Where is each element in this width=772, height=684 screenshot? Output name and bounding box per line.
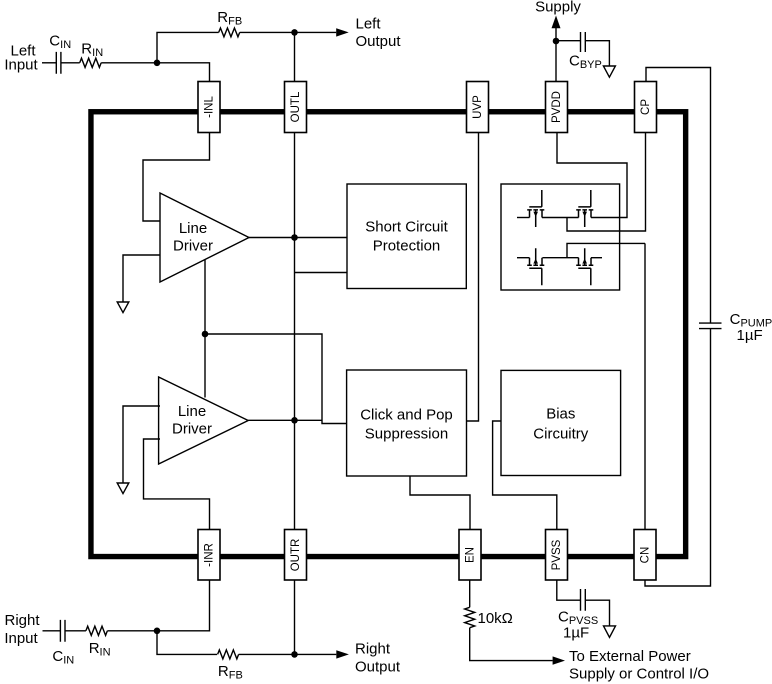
ground (CBYP)	[603, 66, 615, 77]
svg-text:Short Circuit: Short Circuit	[365, 219, 448, 236]
node Left Output arrow and label	[336, 15, 401, 50]
ground (CPVSS)	[604, 626, 616, 638]
node supply arrow head	[552, 16, 561, 29]
wire CIN to RIN (right)	[65, 630, 86, 632]
svg-text:OUTR: OUTR	[290, 539, 302, 572]
wire feedback junction to Click and Pop	[205, 334, 347, 424]
svg-text:Driver: Driver	[173, 238, 213, 255]
wire Q1 left stub	[517, 217, 530, 219]
Short Circuit Protection block U2	[347, 184, 466, 289]
svg-text:Line: Line	[179, 220, 207, 237]
capacitor CBYP	[569, 32, 602, 71]
svg-text:Input: Input	[4, 630, 38, 647]
wire right input to CIN	[43, 630, 61, 632]
svg-text:Bias: Bias	[546, 406, 575, 423]
svg-text:Right: Right	[355, 641, 391, 658]
wire supply junction to CBYP	[556, 40, 581, 42]
wire U1 output to Short Circuit Protection	[249, 237, 347, 239]
resistor RIN (left channel)	[80, 41, 103, 68]
svg-text:OUTL: OUTL	[290, 91, 302, 122]
svg-text:CN: CN	[640, 547, 652, 564]
svg-text:Driver: Driver	[172, 421, 212, 438]
wire junction up to RFB	[157, 32, 219, 62]
op-amp U1 Line Driver (left channel)	[160, 193, 249, 282]
pin OUTL	[285, 82, 307, 133]
wire CP pin to CPUMP top	[646, 68, 711, 324]
wire OUTL node to output arrow	[295, 31, 337, 33]
transistor Q4 (charge pump bottom right)	[576, 248, 593, 285]
svg-text:CP: CP	[640, 99, 652, 115]
wire top switch midpoint	[542, 217, 579, 219]
wire supply arrow shaft	[555, 27, 557, 41]
pin OUTR	[285, 530, 307, 581]
wire RIN to -INR pin	[107, 580, 209, 631]
svg-text:Click and Pop: Click and Pop	[360, 407, 453, 424]
wire RIN to -INL pin	[101, 63, 209, 82]
svg-text:Circuitry: Circuitry	[533, 426, 588, 443]
svg-text:Output: Output	[355, 659, 401, 676]
wire EN pin to 10k resistor	[469, 580, 471, 607]
wire U1 ground input	[123, 255, 160, 302]
wire U6 ground input	[123, 406, 160, 483]
Bias Circuitry block U4	[501, 370, 621, 475]
wire Q4 right stub	[591, 257, 602, 259]
wire Q3 left stub	[517, 257, 530, 259]
pin PVSS	[546, 530, 568, 581]
node OUTL top junction	[291, 29, 298, 36]
pin -INR	[198, 530, 220, 581]
IC body outline	[91, 112, 686, 557]
wire 10k to external arrow	[470, 628, 553, 661]
svg-text:Line: Line	[178, 403, 206, 420]
svg-text:PVSS: PVSS	[551, 539, 563, 570]
svg-text:Right: Right	[4, 612, 40, 629]
capacitor CPVSS	[558, 589, 598, 642]
wire CBYP to ground	[585, 41, 609, 66]
svg-text:EN: EN	[465, 547, 477, 563]
svg-text:1µF: 1µF	[737, 327, 763, 344]
wire CIN to RIN	[61, 62, 80, 64]
svg-text:-INR: -INR	[204, 543, 216, 567]
svg-text:Supply or Control I/O: Supply or Control I/O	[569, 666, 709, 683]
wire bottom switch midpoint to CN	[542, 243, 645, 529]
wire OUTR pin stub	[294, 580, 296, 654]
wire PVSS pin to CPVSS	[557, 580, 581, 600]
pin UVP	[467, 82, 489, 133]
node U1 output junction on OUTL rail	[291, 234, 298, 241]
svg-text:Protection: Protection	[373, 238, 441, 255]
wire CPUMP bottom to CN pin	[645, 329, 711, 586]
resistor RIN (right channel)	[86, 626, 111, 658]
wire -INR pin to U6 lower input	[144, 439, 210, 530]
svg-text:PVDD: PVDD	[551, 91, 563, 123]
node left input junction	[154, 60, 161, 67]
svg-text:Left: Left	[356, 15, 382, 32]
wire CPVSS to ground	[585, 600, 609, 626]
capacitor CPUMP	[699, 311, 772, 344]
svg-text:To External Power: To External Power	[569, 648, 691, 665]
resistor RFB (left channel)	[217, 9, 242, 37]
resistor R1 10k	[465, 607, 513, 627]
svg-text:CIN: CIN	[52, 648, 74, 667]
wire RFB to OUTL node	[240, 31, 295, 33]
svg-text:1µF: 1µF	[563, 625, 589, 642]
wire junction down to RFB (right)	[157, 631, 217, 655]
svg-text:RFB: RFB	[218, 663, 243, 682]
wire OUTR node to output arrow	[295, 653, 337, 655]
wire left input to CIN	[42, 62, 56, 64]
wire CP pin into charge pump node	[567, 133, 646, 232]
wire OUTL rail branch to Short Circuit Protection	[295, 272, 348, 274]
svg-text:RIN: RIN	[81, 41, 103, 60]
pin CN	[634, 530, 656, 581]
wire RFB to OUTR node	[239, 653, 295, 655]
svg-text:-INL: -INL	[204, 96, 216, 118]
svg-text:RFB: RFB	[217, 9, 242, 28]
svg-text:Input: Input	[4, 56, 38, 73]
op-amp U6 Line Driver (right channel)	[159, 377, 249, 464]
wire feedback rail between drivers	[204, 260, 206, 398]
ground (U1 input)	[117, 302, 129, 313]
wire UVP pin to Click and Pop	[467, 133, 479, 422]
resistor RFB (right channel)	[218, 650, 243, 681]
node OUTR bottom junction	[291, 651, 298, 658]
wire PVDD pin into charge pump	[557, 133, 627, 218]
wire Bias Circuitry to PVSS pin	[493, 421, 557, 530]
wire OUTL rail (OUTL pin to OUTR pin)	[294, 133, 296, 530]
transistor Q3 (charge pump bottom left)	[527, 248, 544, 285]
capacitor CIN (left channel)	[49, 33, 71, 74]
capacitor CIN (right channel)	[52, 620, 74, 667]
node U6 output junction on OUTR rail	[291, 417, 298, 424]
node right input junction	[154, 628, 161, 635]
transistor Q2 (charge pump top right)	[576, 190, 593, 227]
wire U6 output	[248, 419, 322, 421]
svg-text:CBYP: CBYP	[569, 52, 602, 71]
node feedback junction	[202, 331, 209, 338]
node Right Input label	[4, 612, 40, 647]
wire Click and Pop to EN pin	[410, 476, 470, 530]
pin -INL	[198, 82, 220, 133]
svg-text:Supply: Supply	[535, 0, 581, 16]
svg-text:UVP: UVP	[472, 95, 484, 119]
node To External arrow and label	[553, 648, 709, 683]
ground (U6 input)	[117, 483, 129, 494]
wire OUTL pin stub	[294, 32, 296, 81]
transistor Q1 (charge pump top left)	[527, 190, 544, 227]
Click and Pop Suppression block U3	[347, 370, 467, 476]
svg-text:10kΩ: 10kΩ	[478, 610, 513, 627]
pin EN	[459, 530, 481, 581]
wire PVDD pin stub	[555, 41, 557, 82]
wire -INL pin to U1 upper input	[143, 133, 210, 222]
svg-text:Output: Output	[356, 33, 402, 50]
pin PVDD	[546, 82, 568, 133]
svg-text:CIN: CIN	[49, 33, 71, 52]
svg-text:RIN: RIN	[89, 640, 111, 659]
node supply junction	[553, 38, 560, 45]
pin CP	[635, 82, 657, 133]
node Right Output arrow and label	[336, 641, 401, 676]
svg-text:Suppression: Suppression	[365, 426, 448, 443]
node Left Input label	[4, 42, 38, 73]
charge pump switch block U5	[501, 184, 620, 290]
